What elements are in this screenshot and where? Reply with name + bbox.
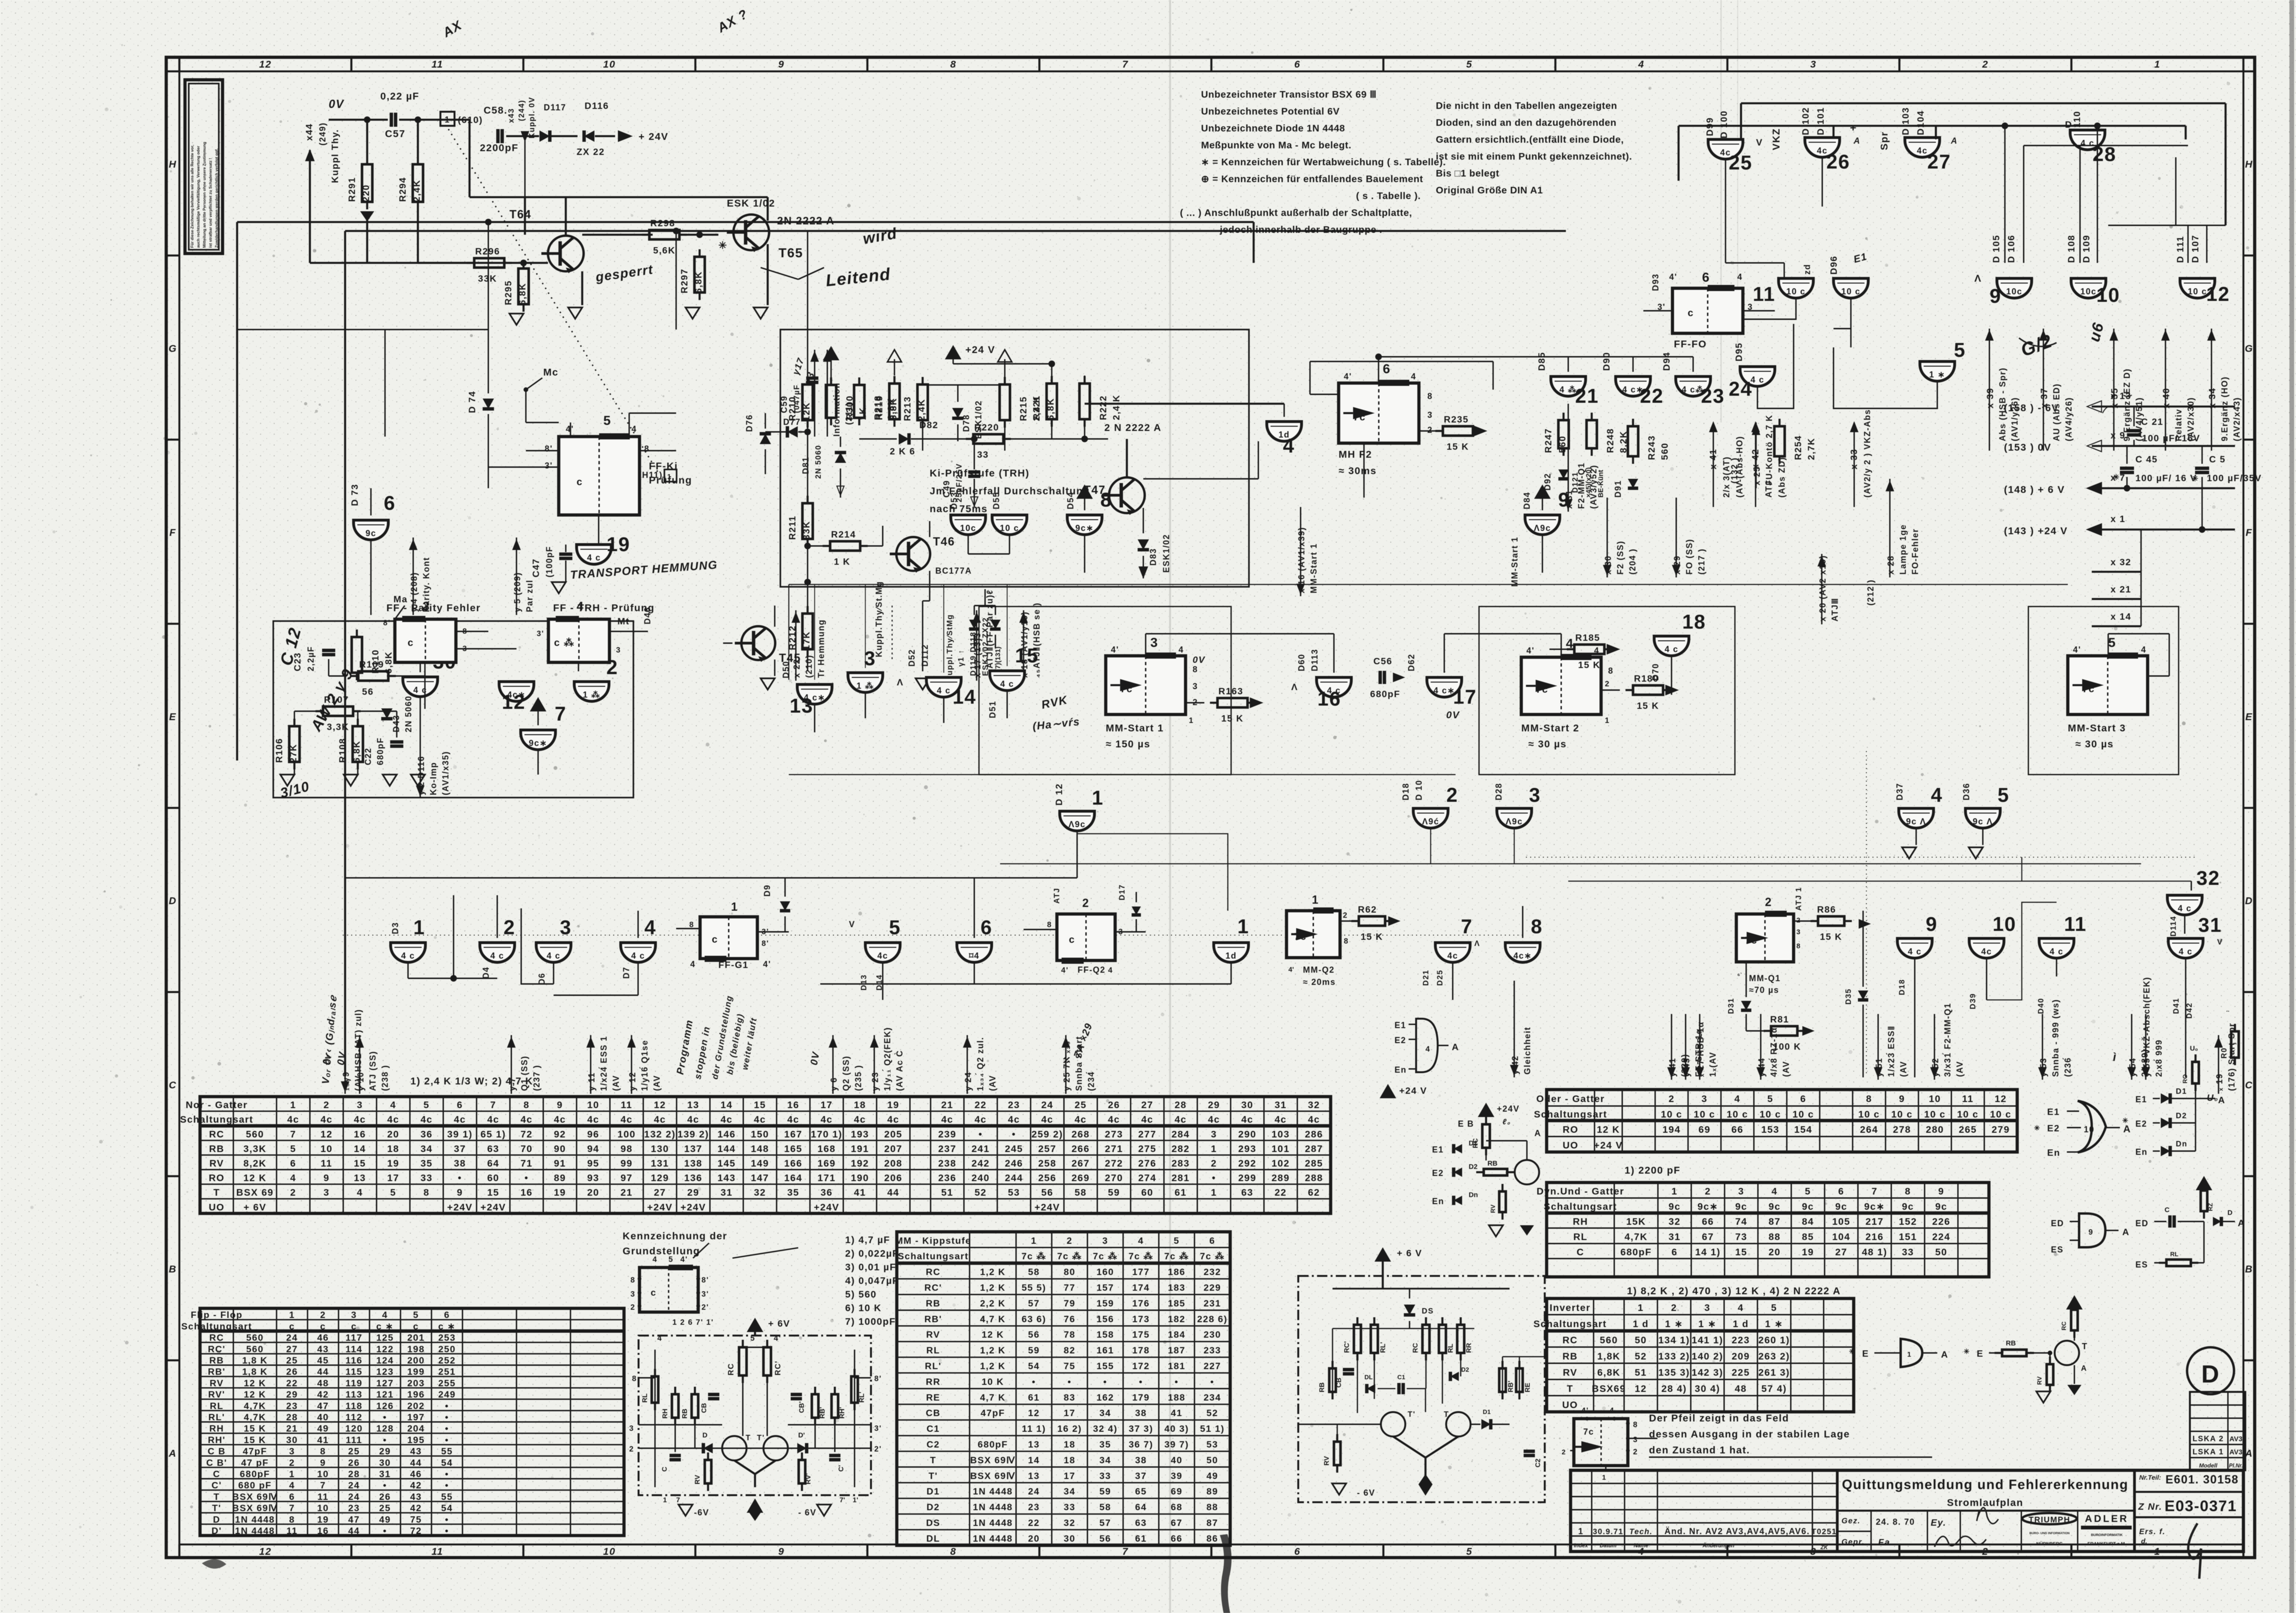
svg-text:44: 44 [410, 1458, 422, 1468]
svg-text:x 20 (AV2 x19): x 20 (AV2 x19) [1818, 555, 1827, 622]
svg-text:RV': RV' [208, 1390, 225, 1400]
svg-text:1) 2200 pF: 1) 2200 pF [1625, 1165, 1680, 1176]
FF-TRH flip-flop [537, 599, 648, 671]
svg-text:CB: CB [1335, 1377, 1343, 1388]
svg-text:560: 560 [246, 1129, 264, 1140]
svg-text:RH': RH' [839, 1407, 846, 1419]
svg-text:(217 ): (217 ) [1697, 548, 1706, 575]
svg-text:289: 289 [1271, 1173, 1290, 1183]
diode D74 [467, 330, 494, 488]
handwritten G/2 u6 [2018, 320, 2107, 361]
svg-text:B: B [2245, 1264, 2253, 1275]
svg-text:1 ⁂: 1 ⁂ [856, 681, 874, 691]
svg-text:D85: D85 [1537, 352, 1547, 371]
svg-text:4c: 4c [1241, 1114, 1254, 1125]
revision letter D circle [2187, 1347, 2234, 1394]
svg-text:24: 24 [1729, 378, 1752, 400]
svg-text:Spr: Spr [1879, 131, 1890, 150]
svg-text:29: 29 [379, 1446, 391, 1457]
svg-text:4c: 4c [1447, 951, 1458, 960]
svg-text:Pl.Nr.: Pl.Nr. [2229, 1463, 2242, 1469]
svg-text:4c: 4c [854, 1114, 866, 1125]
svg-text:- 6V: - 6V [1357, 1488, 1375, 1498]
svg-text:E: E [2245, 711, 2253, 722]
svg-text:D7: D7 [622, 967, 631, 979]
svg-text:203: 203 [407, 1378, 424, 1389]
svg-text:20: 20 [1028, 1534, 1040, 1544]
svg-text:En: En [1395, 1065, 1407, 1075]
MM-Start3 monoflop [2068, 635, 2169, 750]
MM symbol 7c with arrow [1562, 1406, 1657, 1482]
svg-text:75: 75 [410, 1514, 422, 1525]
svg-text:229: 229 [1203, 1283, 1221, 1293]
svg-text:7: 7 [1122, 59, 1128, 70]
svg-text:4: 4 [1610, 1406, 1615, 1415]
svg-text:12 K: 12 K [982, 1330, 1004, 1340]
svg-text:FF - TRH - Prüfung: FF - TRH - Prüfung [553, 602, 655, 614]
svg-text:140 2): 140 2) [1692, 1351, 1723, 1362]
svg-text:102: 102 [1271, 1158, 1290, 1169]
svg-text:E601. 30158: E601. 30158 [2165, 1474, 2239, 1486]
svg-text:D93: D93 [1651, 273, 1660, 291]
svg-text:30: 30 [379, 1458, 391, 1468]
svg-text:9c: 9c [1735, 1201, 1748, 1212]
wires parity cluster [294, 659, 425, 775]
svg-text:En: En [2047, 1148, 2060, 1158]
svg-text:4: 4 [653, 1255, 658, 1264]
node marker 1 (610) [440, 112, 483, 126]
svg-text:13: 13 [1028, 1440, 1040, 1450]
resistor R213 2,4K [902, 377, 928, 428]
svg-text:33: 33 [421, 1173, 433, 1183]
svg-text:13: 13 [790, 695, 813, 717]
pigtail y2 Ko-Imp [416, 732, 450, 798]
svg-text:1N 4448: 1N 4448 [973, 1502, 1013, 1513]
svg-text:18: 18 [1682, 611, 1706, 633]
svg-text:RC: RC [1412, 1343, 1419, 1353]
svg-text:4c: 4c [487, 1114, 500, 1125]
svg-text:15 K: 15 K [1447, 442, 1469, 452]
svg-text:0V: 0V [808, 1051, 822, 1066]
svg-text:x 32: x 32 [2111, 557, 2131, 568]
pigtail y4 Parity Kont [409, 538, 431, 615]
svg-text:24: 24 [1028, 1487, 1040, 1497]
svg-text:253: 253 [438, 1333, 455, 1343]
svg-text:1: 1 [289, 1469, 295, 1480]
svg-text:C2: C2 [1534, 1459, 1542, 1467]
svg-text:(H11): (H11) [639, 470, 663, 480]
svg-text:89: 89 [554, 1173, 566, 1183]
svg-text:680pF: 680pF [1370, 689, 1400, 699]
svg-text:4: 4 [1425, 1045, 1431, 1053]
svg-text:10: 10 [1993, 913, 2016, 936]
svg-text:10 c: 10 c [1891, 1109, 1913, 1120]
svg-text:0V: 0V [1193, 655, 1205, 665]
svg-text:4c: 4c [1208, 1114, 1220, 1125]
svg-text:266: 266 [1071, 1144, 1090, 1154]
resistor R254 2,7K [1774, 419, 1817, 464]
svg-text:D 109: D 109 [2081, 235, 2092, 263]
svg-text:4c: 4c [1308, 1114, 1320, 1125]
svg-text:0V: 0V [329, 98, 345, 111]
svg-text:103: 103 [1271, 1129, 1290, 1140]
svg-text:c: c [651, 1288, 656, 1298]
gate 16 [1291, 649, 1351, 710]
svg-text:Schaltungsart: Schaltungsart [180, 1114, 253, 1125]
svg-text:2: 2 [1765, 896, 1772, 909]
svg-text:9c Λ: 9c Λ [1906, 817, 1926, 826]
pigtail y44 RZ-1a [1757, 1014, 1791, 1080]
svg-text:4 c: 4 c [2049, 947, 2064, 956]
svg-text:6: 6 [444, 1310, 450, 1321]
gate 13 [781, 661, 832, 717]
svg-text:32: 32 [2196, 867, 2220, 890]
svg-text:T46: T46 [933, 536, 955, 548]
wires 24 5 block [1757, 324, 1937, 408]
svg-text:Schaltungsart: Schaltungsart [898, 1252, 969, 1262]
svg-text:Gepr.: Gepr. [1841, 1538, 1865, 1546]
svg-text:9: 9 [2088, 1228, 2094, 1237]
resistor R108 6,8K [338, 719, 363, 769]
svg-text:7: 7 [490, 1100, 496, 1111]
svg-text:D55: D55 [992, 492, 1001, 509]
FF-Parity cluster box [273, 621, 633, 798]
gate 25 [1708, 139, 1752, 174]
svg-text:9c: 9c [365, 529, 376, 538]
svg-text:47 pF: 47 pF [241, 1458, 269, 1468]
svg-text:RB: RB [1318, 1382, 1326, 1392]
svg-text:R108: R108 [338, 738, 348, 763]
example OR diode equivalent E1 D1 E2 D2 En Dn RO [2122, 1045, 2226, 1157]
svg-text:1/y16́ Q1se: 1/y16́ Q1se [639, 1040, 649, 1091]
svg-text:A: A [2218, 1095, 2226, 1106]
svg-text:10c: 10c [2006, 287, 2023, 296]
svg-text:2,7K: 2,7K [1806, 438, 1817, 460]
svg-text:D13: D13 [860, 974, 868, 991]
svg-text:C22: C22 [363, 747, 373, 765]
svg-text:y 51: y 51 [1874, 1058, 1884, 1077]
svg-text:D37: D37 [1895, 783, 1904, 800]
svg-text:1: 1 [445, 115, 450, 124]
svg-text:4': 4' [1344, 372, 1352, 381]
svg-text:143: 143 [717, 1173, 736, 1183]
svg-text:D3: D3 [391, 922, 400, 934]
svg-text:+24V: +24V [480, 1202, 506, 1213]
svg-text:24: 24 [286, 1333, 298, 1343]
svg-text:+24 V: +24 V [1399, 1086, 1427, 1096]
svg-text:199: 199 [407, 1367, 424, 1377]
svg-text:RC: RC [727, 1363, 735, 1375]
svg-text:•: • [1103, 1377, 1107, 1387]
svg-text:RO: RO [2181, 1074, 2188, 1083]
svg-text:282: 282 [1171, 1144, 1190, 1154]
svg-text:100 µF/ 16 V: 100 µF/ 16 V [2135, 473, 2197, 484]
svg-text:11: 11 [1753, 283, 1775, 306]
svg-text:C 21: C 21 [2141, 417, 2164, 427]
svg-text:150: 150 [751, 1129, 769, 1140]
svg-text:132 2): 132 2) [644, 1129, 676, 1140]
svg-text:22: 22 [1028, 1518, 1040, 1529]
svg-text:4c: 4c [354, 1114, 366, 1125]
svg-text:c: c [289, 1321, 295, 1332]
svg-text:x 29: x 29 [1672, 555, 1682, 575]
svg-text:2N 2222 A: 2N 2222 A [777, 215, 835, 227]
svg-text:D36: D36 [1962, 783, 1971, 800]
pigtail x20 ATJIII [1818, 554, 1840, 624]
svg-text:148: 148 [751, 1144, 769, 1154]
svg-text:10: 10 [2084, 1125, 2095, 1134]
svg-text:226: 226 [1932, 1216, 1950, 1227]
svg-text:D: D [2201, 1360, 2219, 1388]
svg-text:ATJ (SS): ATJ (SS) [368, 1051, 378, 1091]
svg-text:4c: 4c [1008, 1114, 1020, 1125]
svg-text:93: 93 [587, 1173, 600, 1183]
svg-text:Dioden, sind an den dazugeh: Dioden, sind an den dazugehörenden [1436, 117, 1617, 128]
svg-text:4 c: 4 c [1750, 375, 1764, 384]
svg-text:(AV2/y 2 ) VKZ-Abs: (AV2/y 2 ) VKZ-Abs [1863, 409, 1872, 498]
svg-text:Λ: Λ [897, 677, 904, 688]
svg-text:4': 4' [774, 1334, 781, 1343]
svg-text:5) 560: 5) 560 [845, 1289, 877, 1300]
svg-text:c: c [408, 637, 414, 648]
svg-text:24. 8. 70: 24. 8. 70 [1876, 1517, 1915, 1527]
svg-text:Kuppl.Thy⁄StMg: Kuppl.Thy⁄StMg [946, 614, 954, 682]
svg-text:5: 5 [1997, 784, 2009, 806]
svg-text:D17: D17 [1118, 884, 1126, 900]
gate 15 [988, 645, 1039, 718]
svg-text:56: 56 [1041, 1187, 1054, 1198]
svg-text:28: 28 [1175, 1100, 1187, 1111]
svg-text:D 10: D 10 [1414, 780, 1424, 800]
svg-text:15: 15 [754, 1100, 766, 1111]
svg-text:+24 V: +24 V [1594, 1140, 1623, 1151]
svg-text:D116: D116 [585, 101, 609, 111]
svg-text:D31: D31 [1727, 998, 1735, 1014]
svg-text:19: 19 [887, 1100, 900, 1111]
MM-Start1 monoflop [1106, 635, 1205, 750]
svg-text:90: 90 [554, 1144, 566, 1154]
svg-text:3: 3 [560, 916, 571, 939]
svg-text:4 c: 4 c [587, 553, 601, 562]
wire T64 stage top [310, 214, 474, 263]
svg-text:256: 256 [1038, 1173, 1056, 1183]
svg-text:3: 3 [1738, 1186, 1744, 1197]
svg-text:8: 8 [424, 1187, 430, 1198]
svg-text:1: 1 [1605, 716, 1610, 725]
svg-text:¨: ¨ [2227, 1010, 2230, 1018]
svg-text:15 K: 15 K [1361, 932, 1383, 942]
svg-text:1) 8,2 K , 2) 470 ,: 1) 8,2 K , 2) 470 , 3) 12 K , 4) 2 N 222… [1627, 1285, 1841, 1297]
svg-text:2N 5060: 2N 5060 [814, 445, 823, 479]
svg-text:x43: x43 [507, 108, 516, 123]
svg-text:0V: 0V [335, 1051, 348, 1066]
svg-text:217: 217 [1865, 1216, 1884, 1227]
MM example DL C1 [1364, 1374, 1405, 1394]
svg-text:2: 2 [324, 1100, 330, 1111]
svg-text:272: 272 [1105, 1158, 1123, 1169]
svg-text:RH: RH [209, 1424, 224, 1434]
svg-text:10: 10 [321, 1144, 333, 1154]
handwritten annotation RVK [1032, 694, 1081, 732]
svg-text:27: 27 [1835, 1247, 1848, 1258]
svg-text:4': 4' [1111, 645, 1119, 654]
MM-Start2 monoflop [1521, 636, 1620, 750]
svg-text:3: 3 [1193, 682, 1198, 691]
svg-text:154: 154 [1794, 1124, 1812, 1135]
svg-text:y 54: y 54 [2128, 1058, 2137, 1077]
svg-text:D62: D62 [1407, 653, 1416, 671]
svg-text:43: 43 [317, 1344, 329, 1354]
gate 9 9c right [1522, 486, 1570, 535]
gate 24 [1729, 367, 1775, 400]
svg-text:31: 31 [2198, 914, 2222, 937]
svg-text:9: 9 [457, 1187, 463, 1198]
svg-text:275: 275 [1138, 1144, 1156, 1154]
svg-text:RL: RL [1447, 1344, 1455, 1353]
svg-text:68: 68 [1171, 1502, 1183, 1513]
resistor R296 33K [467, 246, 512, 284]
connector labels x41 x42 x33 [1708, 409, 1872, 507]
svg-text:3: 3 [351, 1310, 357, 1321]
svg-text:18: 18 [1064, 1455, 1076, 1466]
svg-text:1 K: 1 K [834, 557, 850, 567]
svg-text:4: 4 [632, 424, 637, 434]
svg-text:D39: D39 [1969, 993, 1977, 1009]
svg-text:49: 49 [379, 1514, 391, 1525]
svg-text:42: 42 [410, 1481, 422, 1491]
svg-text:4: 4 [657, 1334, 663, 1343]
svg-text:✳: ✳ [2034, 1125, 2040, 1132]
svg-text:6: 6 [1383, 361, 1391, 376]
svg-text:RL': RL' [925, 1361, 941, 1372]
svg-text:70: 70 [521, 1144, 533, 1154]
svg-text:59: 59 [1028, 1345, 1040, 1356]
svg-text:8: 8 [1633, 1421, 1638, 1429]
pigtail y41 y43 FF-STR [1668, 1014, 1703, 1080]
svg-text:4,7K: 4,7K [244, 1401, 266, 1411]
svg-text:D2: D2 [2176, 1112, 2187, 1120]
svg-text:RC: RC [209, 1129, 224, 1140]
svg-text:4c: 4c [554, 1114, 566, 1125]
svg-text:RR: RR [1465, 1343, 1473, 1353]
svg-text:56: 56 [1100, 1534, 1111, 1544]
svg-text:4: 4 [1738, 1302, 1744, 1313]
svg-text:63 6): 63 6) [1022, 1314, 1046, 1324]
svg-text:3: 3 [1796, 929, 1800, 936]
pigtail y17 y3 Information [791, 350, 854, 437]
svg-text:200: 200 [407, 1356, 424, 1366]
svg-text:10 c: 10 c [1786, 287, 1805, 296]
svg-text:194: 194 [1663, 1124, 1681, 1135]
svg-text:UO: UO [1562, 1399, 1578, 1410]
svg-text:2) 0,022µF: 2) 0,022µF [845, 1248, 899, 1259]
svg-text:84: 84 [1802, 1216, 1814, 1227]
svg-text:61: 61 [1028, 1392, 1040, 1403]
FF-G1 flip-flop [676, 901, 789, 970]
svg-text:D99: D99 [1705, 117, 1715, 136]
gate 11 row D [1987, 902, 2087, 1014]
svg-text:4 ⁂: 4 ⁂ [1559, 385, 1577, 394]
svg-text:dessen Ausgang in der stab: dessen Ausgang in der stabilen Lage [1649, 1429, 1850, 1440]
label Mc [524, 367, 559, 422]
svg-text:D18: D18 [1401, 783, 1410, 800]
svg-text:128: 128 [376, 1424, 393, 1434]
svg-text:42: 42 [410, 1503, 422, 1513]
svg-text:10c: 10c [2080, 287, 2097, 296]
svg-text:76: 76 [1064, 1314, 1076, 1324]
svg-text:D9: D9 [763, 884, 772, 897]
svg-text:R294: R294 [398, 177, 408, 202]
+24V above table [1381, 1085, 1427, 1098]
svg-text:51: 51 [1635, 1367, 1647, 1378]
svg-text:T65: T65 [778, 246, 803, 260]
svg-text:12: 12 [259, 59, 272, 70]
svg-text:7) 1000pF: 7) 1000pF [845, 1316, 896, 1327]
svg-text:161: 161 [1096, 1345, 1114, 1356]
svg-text:10: 10 [317, 1503, 329, 1513]
svg-text:•: • [1210, 1377, 1214, 1387]
svg-text:1N 4448: 1N 4448 [235, 1514, 275, 1525]
pigtail y52 F2-MM-Q1 [1931, 1003, 1965, 1080]
transistor T47 [1084, 422, 1162, 515]
svg-text:RH: RH [662, 1409, 669, 1419]
legend text block: unbezeichnete Bauteile [1180, 89, 1446, 235]
svg-text:R62: R62 [1358, 905, 1377, 915]
svg-text:DS: DS [926, 1518, 940, 1529]
svg-text:1 d: 1 d [1733, 1319, 1749, 1329]
+24V arrow top right of T65 [618, 131, 669, 142]
svg-text:12: 12 [1995, 1094, 2007, 1105]
svg-text:3: 3 [1427, 410, 1433, 420]
svg-text:✳: ✳ [1964, 1348, 1970, 1356]
svg-text:37: 37 [454, 1144, 466, 1154]
svg-text:y 10: y 10 [356, 1072, 365, 1091]
svg-text:10 c: 10 c [1000, 523, 1019, 533]
svg-text:22: 22 [975, 1100, 987, 1111]
svg-text:4c: 4c [1141, 1114, 1154, 1125]
svg-text:x44: x44 [304, 123, 315, 141]
svg-text:(204 ): (204 ) [1628, 548, 1637, 575]
svg-text:✳: ✳ [2122, 1117, 2128, 1125]
svg-text:•: • [445, 1401, 449, 1411]
stub x32 [2092, 530, 2141, 626]
example FF +6V supply [748, 1319, 790, 1336]
svg-text:4c∗: 4c∗ [1513, 951, 1532, 960]
svg-text:RB: RB [926, 1298, 940, 1309]
svg-text:Schaltungsart: Schaltungsart [181, 1321, 252, 1332]
svg-text:Original Größe DIN A1: Original Größe DIN A1 [1436, 185, 1543, 196]
svg-text:RV: RV [1489, 1205, 1496, 1213]
svg-text:151: 151 [1899, 1232, 1917, 1243]
svg-text:Tr Hemmung: Tr Hemmung [817, 619, 826, 678]
svg-text:4 c: 4 c [1664, 645, 1679, 654]
svg-text:y 12: y 12 [628, 1072, 637, 1091]
svg-text:3: 3 [629, 1424, 634, 1433]
svg-text:23: 23 [348, 1503, 360, 1513]
svg-text:170 1): 170 1) [811, 1129, 842, 1140]
svg-text:270: 270 [1105, 1173, 1123, 1183]
labels D 110 [2065, 111, 2082, 130]
svg-text:49: 49 [317, 1424, 329, 1434]
EB transistor example near tables [1432, 1104, 1541, 1237]
svg-text:52: 52 [975, 1187, 987, 1198]
svg-text:5: 5 [1767, 1094, 1773, 1105]
svg-text:y 23: y 23 [871, 1072, 880, 1091]
svg-text:Die nicht in den Tabellen: Die nicht in den Tabellen angezeigten [1436, 100, 1617, 111]
svg-text:C B': C B' [206, 1458, 227, 1468]
svg-text:87: 87 [1207, 1518, 1218, 1529]
svg-text:R219: R219 [874, 395, 885, 420]
